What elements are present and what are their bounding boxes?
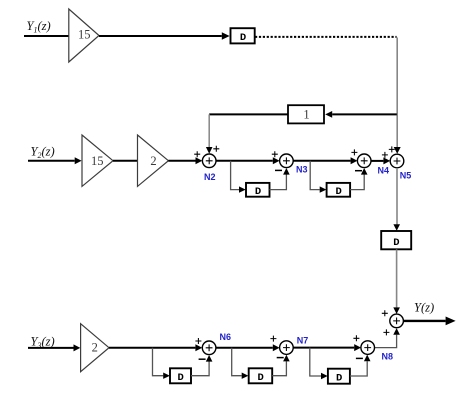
svg-text:D: D — [255, 186, 261, 198]
plus sign N6 left input — [195, 338, 201, 344]
svg-text:N3: N3 — [296, 165, 308, 175]
svg-text:N7: N7 — [297, 335, 309, 345]
svg-text:Y2(z): Y2(z) — [31, 145, 55, 161]
arrow into D4 top — [393, 224, 400, 230]
wire coeff box to N2 corner — [209, 113, 288, 115]
wire D6 to N7 — [272, 361, 286, 375]
delay D7 (bottom row third) — [328, 369, 350, 385]
summing node N8 — [361, 341, 375, 355]
branch wire to D2 — [231, 161, 239, 190]
summing node N5 — [390, 154, 404, 168]
branch wire to D3 — [310, 161, 320, 190]
arrow into N2 top — [206, 147, 213, 154]
svg-text:D: D — [335, 186, 341, 198]
coeff box 1 — [288, 105, 324, 123]
plus sign output node top input — [382, 310, 388, 316]
wire N7 to N8 — [293, 347, 354, 349]
gain 2 triangle A3 — [138, 135, 169, 186]
delay D3 (middle row second) — [327, 183, 351, 198]
gain 2 triangle A4 — [81, 324, 109, 372]
arrow into N6 bottom — [206, 355, 213, 362]
arrow into N4 bottom — [361, 168, 368, 175]
wire A3 to N2 — [168, 160, 195, 162]
plus sign N2 left input — [194, 151, 200, 157]
delay D5 (bottom row first) — [170, 368, 191, 384]
svg-text:D: D — [178, 372, 184, 384]
svg-text:N6: N6 — [220, 332, 232, 342]
summing node N3 — [280, 154, 294, 168]
svg-text:N8: N8 — [382, 351, 394, 361]
svg-text:N2: N2 — [204, 172, 216, 182]
delay D2 (middle row first) — [246, 183, 270, 198]
summing node N4 — [357, 154, 371, 168]
plus sign N2 top input — [213, 146, 219, 152]
plus sign output node bottom input — [383, 329, 389, 335]
summing node N2 — [202, 154, 216, 168]
delay D4 (right column) — [381, 231, 411, 249]
grey wire D4 to output node — [396, 249, 398, 307]
plus sign N7 left input — [270, 336, 276, 342]
svg-text:Y(z): Y(z) — [414, 301, 434, 315]
plus sign N4 left input — [351, 149, 357, 155]
branch wire to D7 — [310, 348, 321, 376]
branch wire to D6 — [232, 348, 242, 376]
arrow into N8 bottom — [364, 355, 371, 362]
arrow into output node top — [393, 307, 400, 314]
plus sign N8 left input — [353, 335, 359, 341]
wire N6 to N7 — [216, 347, 273, 349]
wire Y1 input — [24, 35, 69, 37]
minus sign N6 bottom input — [199, 358, 206, 360]
output arrowhead — [446, 317, 456, 326]
svg-text:1: 1 — [303, 108, 309, 122]
wire A1 to D1 — [99, 35, 222, 37]
gain 15 triangle A2 — [82, 135, 113, 186]
svg-text:2: 2 — [92, 340, 98, 354]
svg-text:D: D — [240, 32, 246, 44]
svg-text:D: D — [336, 373, 342, 385]
summing node N7 — [280, 341, 294, 355]
grey wire down into N2 — [208, 114, 210, 147]
wire A4 to N6 — [109, 347, 195, 349]
minus sign N3 bottom input — [275, 169, 282, 171]
wire Y2 input — [28, 160, 75, 162]
summing node output — [390, 314, 404, 328]
wire N8 to output node — [375, 335, 397, 348]
output wire — [403, 320, 445, 322]
wire D3 to N4 — [350, 175, 364, 190]
wire N2 to N3 — [216, 160, 273, 162]
svg-text:D: D — [258, 372, 264, 384]
wire D5 to N6 — [191, 362, 209, 376]
minus sign N4 bottom input — [355, 170, 362, 172]
delay D6 (bottom row second) — [249, 368, 273, 384]
minus sign N8 bottom input — [356, 357, 363, 359]
wire A2 to A3 — [113, 160, 138, 162]
svg-text:N4: N4 — [378, 166, 390, 176]
arrow into output node bottom — [393, 328, 400, 335]
svg-text:2: 2 — [150, 154, 156, 168]
plus sign N3 left input — [272, 151, 278, 157]
feedback wire right column to coeff box — [332, 113, 397, 115]
arrow into N3 bottom — [283, 168, 290, 175]
delay D1 (top row) — [231, 28, 255, 44]
minus sign N7 bottom input — [277, 357, 284, 359]
branch wire to D5 — [153, 348, 164, 376]
plus sign N5 left input — [382, 152, 388, 158]
wire D2 to N3 — [270, 175, 287, 190]
svg-text:15: 15 — [91, 154, 104, 168]
wire N3 to N4 — [293, 160, 350, 162]
wire Y3 input — [28, 347, 74, 349]
gain 15 triangle A1 — [69, 9, 99, 62]
arrow into N7 bottom — [283, 355, 290, 362]
svg-text:Y1(z): Y1(z) — [27, 19, 51, 35]
plus sign N5 top input — [389, 146, 395, 152]
dotted wire D1 to right column — [255, 36, 397, 38]
arrow into N5 top — [394, 147, 401, 154]
wire D7 to N8 — [350, 361, 367, 376]
wire N4 to N5 — [371, 160, 383, 162]
grey wire N5 to D4 — [396, 168, 398, 225]
summing node N6 — [202, 341, 216, 355]
grey vertical wire down to N5 — [396, 38, 398, 148]
svg-text:N5: N5 — [400, 170, 412, 180]
svg-text:15: 15 — [78, 28, 91, 42]
svg-text:D: D — [393, 237, 399, 249]
